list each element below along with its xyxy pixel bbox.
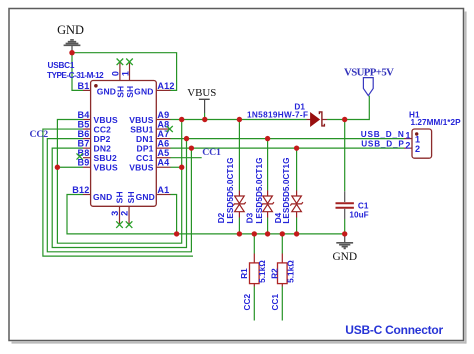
- header pin 1 marker: [415, 132, 418, 135]
- wire net CC1 stub (A5): [171, 157, 202, 159]
- no-connect X mark pin B8: [77, 153, 83, 159]
- ground symbol GND (top): [64, 40, 81, 53]
- svg-text:1: 1: [405, 131, 410, 141]
- svg-text:VBUS: VBUS: [94, 163, 118, 173]
- pin names inside part: [93, 86, 155, 204]
- svg-text:VBUS: VBUS: [94, 115, 118, 125]
- svg-text:CC2: CC2: [94, 124, 112, 134]
- svg-text:VBUS: VBUS: [129, 163, 153, 173]
- header H1 body: [412, 129, 432, 158]
- svg-text:DP1: DP1: [137, 143, 154, 153]
- svg-text:A9: A9: [157, 110, 169, 120]
- svg-text:D3: D3: [246, 212, 255, 223]
- connector USBC1 body: [91, 81, 157, 207]
- svg-text:LESD5D5.0CT1G: LESD5D5.0CT1G: [255, 158, 264, 224]
- svg-text:B12: B12: [72, 185, 89, 195]
- svg-text:1: 1: [120, 71, 130, 76]
- svg-text:VBUS: VBUS: [187, 87, 216, 99]
- svg-text:B9: B9: [77, 158, 89, 168]
- svg-text:1: 1: [415, 135, 420, 145]
- pin numbers right: [157, 81, 174, 195]
- wire net CC2 (B5 loop): [43, 129, 193, 256]
- svg-text:A4: A4: [157, 158, 170, 168]
- svg-text:GND: GND: [136, 192, 155, 202]
- no-connect X marks bottom pins: [116, 221, 132, 228]
- svg-text:LESD5D5.0CT1G: LESD5D5.0CT1G: [226, 158, 235, 224]
- svg-text:R1: R1: [240, 268, 249, 279]
- capacitor C1: [336, 120, 354, 234]
- svg-text:1.27MM/1*2P: 1.27MM/1*2P: [411, 118, 462, 127]
- svg-text:SH: SH: [115, 86, 125, 98]
- svg-text:5.1kΩ: 5.1kΩ: [287, 260, 296, 283]
- net flag VBUS: [187, 87, 216, 119]
- svg-text:C1: C1: [358, 202, 369, 211]
- svg-text:SH: SH: [125, 86, 135, 98]
- svg-text:USBC1: USBC1: [48, 61, 75, 70]
- svg-text:2: 2: [405, 140, 410, 150]
- wire VBUS row: [171, 119, 307, 121]
- svg-text:A5: A5: [157, 148, 169, 158]
- svg-text:CC2: CC2: [243, 294, 252, 311]
- svg-text:A8: A8: [157, 120, 169, 130]
- svg-text:5.1kΩ: 5.1kΩ: [258, 260, 267, 283]
- svg-text:R2: R2: [270, 268, 279, 279]
- svg-text:B1: B1: [77, 81, 89, 91]
- svg-text:DN1: DN1: [136, 134, 154, 144]
- wire GND top to B1 and A12: [72, 53, 177, 91]
- svg-text:SH: SH: [114, 191, 124, 203]
- wire D1 cathode to VSUPP corner: [327, 96, 369, 120]
- TVS diode D2: [233, 120, 246, 234]
- resistor R1: [250, 234, 260, 321]
- svg-text:GND: GND: [57, 23, 84, 37]
- svg-text:0: 0: [111, 71, 121, 76]
- svg-text:VBUS: VBUS: [129, 115, 153, 125]
- svg-text:GND: GND: [332, 251, 357, 263]
- svg-text:D2: D2: [217, 212, 226, 223]
- pin numbers left: [72, 81, 90, 195]
- no-connect X marks top pins: [117, 59, 133, 66]
- connector pins (stubs): [83, 62, 171, 224]
- svg-text:USB_D_N: USB_D_N: [361, 130, 405, 139]
- svg-text:SH: SH: [126, 191, 136, 203]
- svg-text:B5: B5: [77, 120, 89, 130]
- svg-text:2: 2: [415, 144, 420, 154]
- resistor R2: [278, 234, 288, 321]
- svg-text:SBU1: SBU1: [130, 124, 153, 134]
- svg-text:LESD5D5.0CT1G: LESD5D5.0CT1G: [282, 158, 291, 224]
- svg-text:CC1: CC1: [202, 147, 221, 158]
- TVS diode D3: [261, 139, 274, 234]
- svg-text:DP2: DP2: [94, 134, 111, 144]
- svg-text:GND: GND: [93, 192, 112, 202]
- header pin stubs: [404, 139, 412, 149]
- pin 1 marker dot: [94, 84, 98, 88]
- svg-text:A6: A6: [157, 139, 169, 149]
- svg-text:TYPE-C-31-M-12: TYPE-C-31-M-12: [47, 71, 104, 80]
- svg-text:GND: GND: [134, 87, 153, 97]
- svg-text:2: 2: [120, 211, 130, 216]
- svg-text:CC2: CC2: [30, 129, 49, 140]
- svg-text:3: 3: [110, 211, 120, 216]
- svg-text:SBU2: SBU2: [94, 153, 117, 163]
- wire net DP (A6 to D4 to H1 pin2, loop to B6): [171, 147, 405, 149]
- svg-text:CC1: CC1: [271, 294, 280, 311]
- TVS diode D4: [290, 148, 303, 234]
- svg-text:B6: B6: [77, 129, 89, 139]
- no-connect X mark pin A8: [167, 126, 173, 132]
- wire net GND (B12/A1 loop and bottom bus): [67, 195, 345, 234]
- svg-text:VSUPP+5V: VSUPP+5V: [344, 66, 394, 78]
- svg-text:B7: B7: [77, 139, 89, 149]
- svg-text:B4: B4: [77, 110, 90, 120]
- power flag VSUPP+5V: [363, 78, 373, 96]
- svg-text:GND: GND: [97, 87, 116, 97]
- svg-text:USB-C Connector: USB-C Connector: [345, 323, 443, 337]
- svg-text:10uF: 10uF: [349, 211, 368, 220]
- ground symbol GND (bottom): [336, 234, 353, 248]
- svg-text:DN2: DN2: [94, 143, 112, 153]
- wire net VBUS column (A9/A4 loop to B4/B9): [57, 120, 181, 244]
- svg-text:A1: A1: [157, 185, 169, 195]
- svg-text:A12: A12: [157, 81, 174, 91]
- svg-text:USB_D_P: USB_D_P: [361, 139, 404, 148]
- wire net DN (A7 to D3 to H1 pin1, loop to B7): [171, 138, 405, 140]
- svg-text:1N5819HW-7-F: 1N5819HW-7-F: [247, 111, 308, 120]
- svg-text:CC1: CC1: [136, 153, 154, 163]
- diode D1 1N5819HW-7-F: [307, 112, 328, 126]
